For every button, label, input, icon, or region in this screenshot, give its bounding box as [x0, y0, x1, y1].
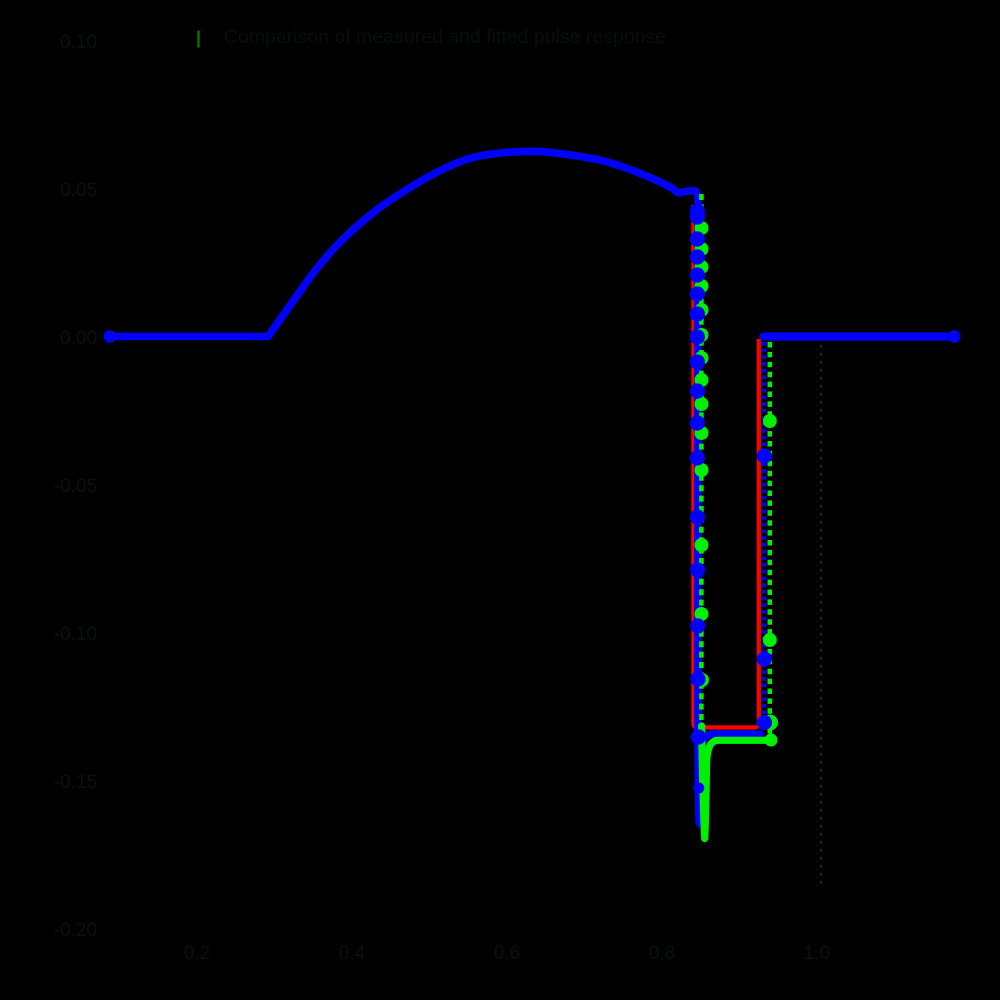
svg-text:Comparison of measured and fit: Comparison of measured and fitted pulse … — [224, 26, 666, 48]
blue end nubs — [104, 330, 117, 343]
svg-text:0.8: 0.8 — [649, 943, 675, 964]
svg-text:0.6: 0.6 — [494, 943, 520, 964]
svg-text:0.05: 0.05 — [60, 180, 97, 201]
green tail and plateau — [702, 726, 768, 839]
green markers left column — [695, 221, 710, 687]
svg-text:1.0: 1.0 — [804, 943, 830, 964]
green dashed rise at pulse end — [767, 342, 772, 734]
svg-text:0.10: 0.10 — [60, 32, 97, 53]
dim x tick labels — [184, 943, 830, 964]
svg-text:-0.15: -0.15 — [54, 772, 97, 793]
blue dashed rise at pulse end — [762, 342, 766, 719]
svg-text:0.00: 0.00 — [60, 328, 97, 349]
blue main curve — [109, 151, 761, 823]
svg-text:0.2: 0.2 — [184, 943, 210, 964]
blue right horizontal — [764, 332, 955, 340]
blue markers left column — [690, 203, 706, 793]
green dashed drop at pulse start — [699, 194, 704, 728]
svg-text:-0.10: -0.10 — [54, 624, 97, 645]
faint dashed vline at x=821 — [820, 345, 822, 884]
blue markers right column — [757, 448, 772, 730]
red fitted square pulse — [693, 205, 758, 727]
svg-text:-0.20: -0.20 — [54, 920, 97, 941]
green markers right column — [762, 414, 778, 747]
legend green tick — [197, 31, 199, 48]
svg-text:-0.05: -0.05 — [54, 476, 97, 497]
dim y tick labels — [54, 32, 97, 941]
svg-text:0.4: 0.4 — [339, 943, 366, 964]
